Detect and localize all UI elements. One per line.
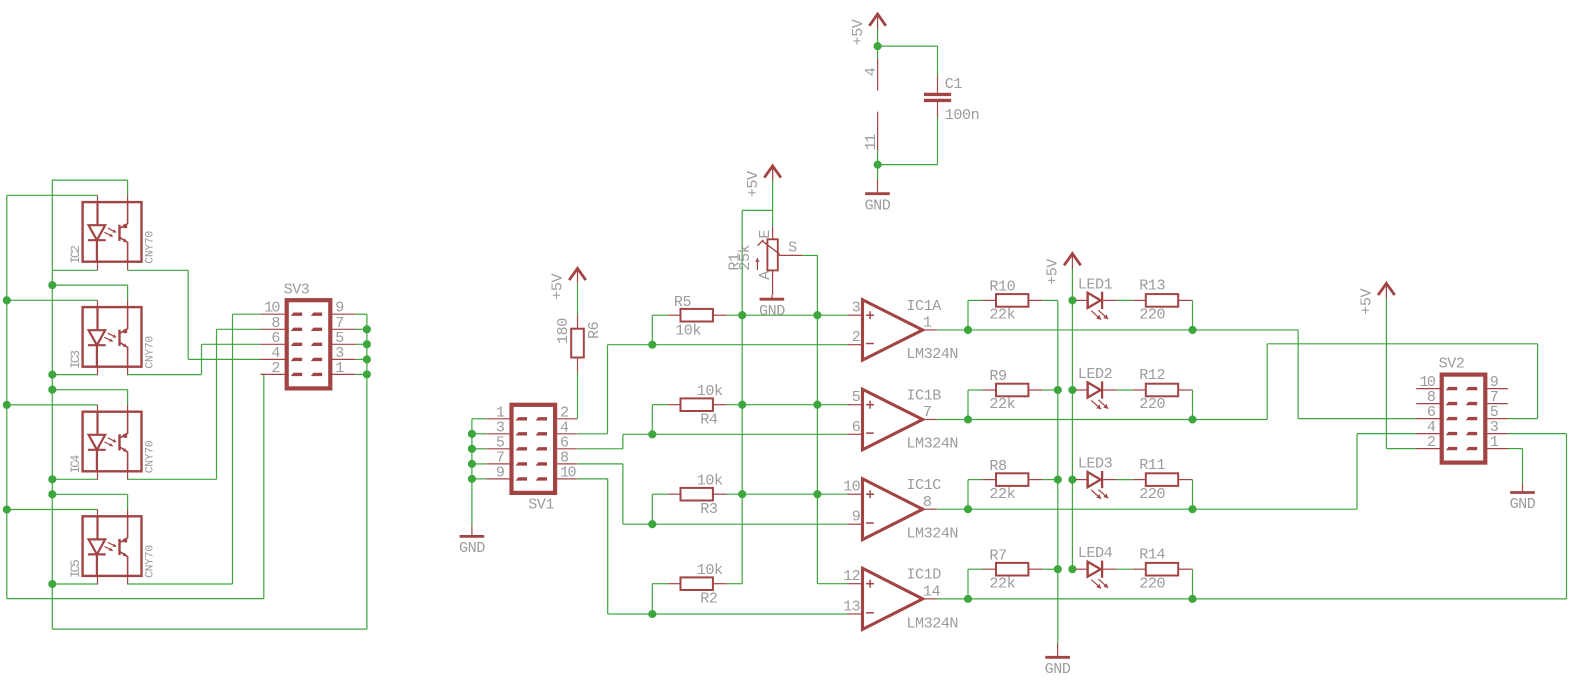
LED LED1 — [1086, 293, 1088, 308]
junction dot -row ch1 — [648, 341, 656, 349]
wire R14 down to output — [1191, 568, 1194, 570]
wire LED3 anode lead — [1072, 479, 1076, 481]
wire SV2 pin1 to gnd — [1508, 448, 1523, 450]
wire LED2 anode lead — [1072, 389, 1076, 391]
pin - IC1A — [848, 344, 863, 346]
svg-text:R7: R7 — [989, 546, 1006, 564]
wire emitter stub — [127, 367, 129, 376]
svg-text:+5V: +5V — [1044, 259, 1062, 285]
wire collector stub — [127, 300, 129, 307]
wire cathode return IC2 — [52, 269, 97, 271]
wire LED cathode to R14 — [1103, 568, 1117, 570]
svg-text:IC5: IC5 — [69, 560, 83, 578]
svg-text:LED4: LED4 — [1078, 544, 1113, 562]
junction dots rail A — [738, 311, 746, 319]
svg-text:LM324N: LM324N — [906, 345, 958, 363]
svg-text:LM324N: LM324N — [906, 435, 958, 453]
wire IC3 emitter to SV3 pin6 — [128, 374, 202, 376]
wire R5 left to -input — [652, 314, 668, 316]
op-amp IC1A LM324N — [863, 300, 923, 360]
wire output ch1 — [937, 329, 1192, 331]
svg-text:7: 7 — [923, 403, 932, 421]
wire net N$1 rail vertical — [6, 195, 8, 598]
pin 11 stub IC1 power — [877, 112, 879, 150]
svg-text:10: 10 — [843, 478, 861, 496]
svg-text:R2: R2 — [700, 590, 717, 608]
wire R12 down to output — [1191, 389, 1194, 391]
wire R7 left to output — [968, 568, 983, 570]
svg-text:GND: GND — [759, 302, 785, 320]
pin leads SV1 — [487, 418, 512, 420]
wire SV1 pin8 to IC1C -input — [577, 463, 623, 465]
wire anode feed IC4 — [7, 404, 98, 406]
LED LED4 — [1086, 562, 1088, 577]
resistor R4 10k — [668, 404, 681, 406]
junction dot ch1 output right — [1189, 326, 1197, 334]
svg-text:CNY70: CNY70 — [144, 545, 156, 578]
junction dot -row ch3 — [648, 520, 656, 528]
wire +5V to IC1 pin4 — [877, 29, 879, 59]
wire R6 to SV1 pin2 — [577, 372, 579, 419]
svg-text:GND: GND — [1510, 495, 1536, 513]
junction dot output ch1 — [964, 326, 972, 334]
svg-text:220: 220 — [1139, 485, 1165, 503]
svg-text:9: 9 — [852, 508, 861, 526]
svg-text:R14: R14 — [1139, 545, 1165, 563]
pin 4 stub IC1 power — [877, 59, 879, 91]
wire R8 left to output — [968, 479, 983, 481]
svg-text:2: 2 — [1427, 433, 1435, 451]
svg-text:220: 220 — [1139, 395, 1165, 413]
svg-text:R6: R6 — [585, 321, 603, 339]
ground GND below C1 — [877, 179, 879, 194]
ground GND below SV2 — [1522, 483, 1524, 492]
svg-text:4: 4 — [862, 67, 880, 76]
wire cathode stub — [97, 367, 99, 376]
svg-text:A: A — [756, 270, 774, 280]
connector SV3 — [287, 300, 331, 388]
resistor R13 220 — [1133, 299, 1147, 301]
resistor R3 10k — [668, 493, 681, 495]
svg-text:22k: 22k — [989, 574, 1015, 592]
svg-text:11: 11 — [862, 134, 880, 150]
pin out IC1C — [923, 508, 938, 510]
wire vcc to C1 — [878, 45, 938, 47]
svg-text:R3: R3 — [700, 500, 718, 518]
LED LED3 — [1086, 472, 1088, 487]
connector SV1 — [512, 405, 556, 493]
junction dot output ch2 — [964, 416, 972, 424]
wire collector stub — [127, 405, 129, 412]
wire collector stub — [127, 195, 129, 202]
wire R3 left to -input — [652, 493, 668, 495]
wire R2 left to -input — [652, 583, 668, 585]
svg-text:R10: R10 — [989, 278, 1015, 296]
svg-text:180: 180 — [554, 318, 572, 344]
wire +5V to R6 — [577, 283, 579, 314]
svg-text:R4: R4 — [700, 411, 718, 429]
wire C1 to gnd net — [937, 118, 939, 165]
wire R3 right to +input — [727, 493, 848, 495]
resistor R14 220 — [1133, 568, 1147, 570]
wire IC2 emitter to SV3 pin4 — [128, 269, 189, 271]
pin out IC1B — [923, 419, 938, 421]
svg-text:25k: 25k — [736, 244, 754, 270]
wire SV1 pin4 to IC1A -input — [577, 433, 607, 435]
junction dots rail B — [814, 311, 822, 319]
wire R2 right to +input — [727, 583, 742, 585]
wire anode stub — [97, 300, 99, 307]
power +5V above C1 — [869, 14, 886, 26]
svg-text:IC1D: IC1D — [906, 565, 941, 583]
pin - IC1C — [848, 523, 863, 525]
wire cathode return IC5 — [52, 583, 97, 585]
wire collector feed IC5 — [52, 493, 127, 495]
svg-text:R12: R12 — [1139, 366, 1165, 384]
junction dots on rail N$2 — [48, 281, 56, 289]
wire 22k gnd rail — [1057, 300, 1059, 643]
power +5V above SV2 — [1378, 283, 1395, 295]
wire +5V to R1 E — [772, 168, 774, 181]
wire R8 right to rail — [1042, 479, 1057, 481]
wire collector feed IC2 — [52, 179, 127, 181]
wire output ch3 — [937, 508, 1192, 510]
wire LED1 anode lead — [1072, 299, 1076, 301]
svg-text:CNY70: CNY70 — [144, 440, 156, 473]
wire ch3 output to SV2 pin4 — [1193, 508, 1358, 510]
wire R13 down to output — [1191, 299, 1194, 301]
pin - IC1B — [848, 433, 863, 435]
svg-text:100n: 100n — [945, 106, 979, 124]
junction dot output ch3 — [964, 505, 972, 513]
svg-text:1: 1 — [923, 314, 932, 332]
junction dot vcc — [874, 42, 882, 50]
pin + IC1D — [848, 583, 863, 585]
wire LED cathode to R11 — [1103, 479, 1117, 481]
svg-text:S: S — [788, 238, 797, 256]
svg-text:R5: R5 — [674, 293, 692, 311]
svg-text:E: E — [756, 230, 774, 239]
pin + IC1B — [848, 404, 863, 406]
junction dot -row ch4 — [648, 610, 656, 618]
resistor R9 22k — [983, 389, 997, 391]
op-amp IC1C LM324N — [863, 479, 923, 540]
svg-text:R13: R13 — [1139, 277, 1165, 295]
svg-text:220: 220 — [1139, 574, 1165, 592]
svg-text:6: 6 — [852, 418, 861, 436]
wire collector feed IC3 — [52, 284, 127, 286]
wire R5 right to +input — [727, 314, 848, 316]
wire anode stub — [97, 405, 99, 412]
wire IC4 emitter to SV3 pin8 — [128, 478, 217, 480]
junction dot ch3 output right — [1189, 505, 1197, 513]
wire +5V branch rail A — [742, 209, 772, 211]
junction dots SV1 rail — [468, 430, 476, 438]
wire rail N$1 bottom to SV3 pin2 — [7, 598, 264, 600]
svg-text:2: 2 — [271, 359, 279, 377]
svg-text:GND: GND — [459, 539, 485, 557]
pin out IC1A — [923, 329, 938, 331]
LED LED2 — [1086, 382, 1088, 397]
resistor R11 220 — [1133, 479, 1147, 481]
svg-text:22k: 22k — [989, 306, 1015, 324]
wire ch2 output to SV2 pin5 — [1193, 419, 1268, 421]
svg-text:IC1C: IC1C — [906, 476, 941, 494]
wire SV1 pin10 to IC1D -input — [577, 478, 607, 480]
resistor R10 22k — [983, 299, 997, 301]
svg-text:8: 8 — [923, 493, 932, 511]
wire R9 right to rail — [1042, 389, 1057, 391]
pin + IC1C — [848, 493, 863, 495]
ground GND below 22k rail — [1057, 643, 1059, 657]
wire SV1 pin6 to IC1B -input — [577, 448, 623, 450]
junction dots on rail N$1 — [3, 296, 11, 304]
wire rail N$2 bottom to SV3 right rail — [52, 628, 367, 630]
wire cathode return IC4 — [52, 478, 97, 480]
wire wiper rail B — [816, 255, 818, 583]
svg-text:GND: GND — [1045, 660, 1071, 678]
svg-text:IC2: IC2 — [69, 246, 83, 264]
svg-text:10k: 10k — [675, 321, 701, 339]
resistor R12 220 — [1133, 389, 1147, 391]
capacitor C1 100n — [937, 76, 939, 93]
svg-text:10: 10 — [560, 463, 576, 481]
svg-text:SV2: SV2 — [1439, 355, 1465, 373]
svg-text:R9: R9 — [989, 367, 1007, 385]
wire R1 wiper to rail B — [802, 254, 817, 256]
op-amp IC1B LM324N — [863, 389, 923, 449]
svg-text:IC1B: IC1B — [906, 386, 941, 404]
wire net N$2 rail vertical — [51, 180, 53, 629]
pin + IC1A — [848, 314, 863, 316]
wire SV3 right rail stubs — [355, 313, 367, 315]
wire cathode return IC3 — [52, 374, 97, 376]
wire anode feed IC3 — [7, 299, 98, 301]
ground GND below SV1 — [471, 525, 473, 536]
svg-text:+5V: +5V — [1358, 288, 1376, 314]
connector SV2 — [1442, 375, 1486, 463]
wire anode feed IC2 — [7, 194, 98, 196]
junction dot -row ch2 — [648, 430, 656, 438]
svg-text:GND: GND — [865, 196, 891, 214]
wire LED cathode to R13 — [1103, 299, 1117, 301]
junction dot gnd — [874, 161, 882, 169]
svg-text:C1: C1 — [945, 75, 963, 93]
svg-text:CNY70: CNY70 — [144, 336, 156, 369]
svg-text:SV1: SV1 — [528, 495, 554, 513]
svg-text:10k: 10k — [697, 382, 723, 400]
svg-text:13: 13 — [843, 598, 861, 616]
resistor R5 10k — [668, 314, 681, 316]
pin leads SV2 — [1416, 388, 1441, 390]
junction dot output ch4 — [964, 595, 972, 603]
wire +5V LED rail — [1064, 254, 1081, 266]
resistor R7 22k — [983, 568, 997, 570]
wire IC5 emitter to SV3 pin10 — [128, 583, 233, 585]
wire emitter stub — [127, 471, 129, 480]
power +5V above R1 — [764, 166, 781, 178]
svg-text:22k: 22k — [989, 395, 1015, 413]
svg-text:IC3: IC3 — [69, 351, 83, 369]
wire cathode stub — [97, 471, 99, 480]
wire collector stub — [127, 510, 129, 517]
svg-text:LM324N: LM324N — [906, 525, 958, 543]
wire emitter stub — [127, 576, 129, 585]
wire R9 left to output — [968, 389, 983, 391]
pin leads SV3 — [261, 313, 287, 315]
svg-text:5: 5 — [852, 388, 861, 406]
wire R11 down to output — [1191, 479, 1194, 481]
junction dots LED rail — [1069, 297, 1077, 305]
svg-text:220: 220 — [1139, 306, 1165, 324]
wire ch4 output to SV2 pin3 — [1193, 598, 1567, 600]
wire pin11 to gnd — [877, 150, 879, 179]
wire emitter stub — [127, 262, 129, 271]
svg-text:+5V: +5V — [849, 19, 867, 45]
wire +5V to SV2 pin2 — [1385, 298, 1387, 448]
pin - IC1D — [848, 613, 863, 615]
wire R4 right to +input — [727, 404, 848, 406]
wire cathode stub — [97, 262, 99, 271]
svg-text:R11: R11 — [1139, 456, 1165, 474]
wire anode feed IC5 — [7, 509, 98, 511]
wire SV1 left ground rail — [471, 419, 473, 526]
svg-text:IC4: IC4 — [69, 455, 83, 473]
svg-text:LED1: LED1 — [1078, 275, 1113, 293]
wire R4 left to -input — [652, 404, 668, 406]
wire LED4 anode lead — [1072, 568, 1076, 570]
svg-text:CNY70: CNY70 — [144, 231, 156, 264]
wire R10 left to output — [968, 299, 983, 301]
wire anode stub — [97, 195, 99, 202]
svg-text:IC1A: IC1A — [906, 297, 942, 315]
svg-text:22k: 22k — [989, 485, 1015, 503]
svg-text:LM324N: LM324N — [906, 614, 958, 632]
svg-text:R8: R8 — [989, 457, 1007, 475]
svg-text:LED3: LED3 — [1078, 455, 1113, 473]
junction dot ch4 output right — [1189, 595, 1197, 603]
wire collector feed IC4 — [52, 389, 127, 391]
svg-text:12: 12 — [843, 567, 860, 585]
wire R10 right to rail — [1042, 299, 1057, 301]
wire output ch2 — [937, 419, 1192, 421]
svg-text:SV3: SV3 — [284, 281, 310, 299]
wire ch1 output to SV2 pin6 — [1193, 329, 1299, 331]
resistor R2 10k — [668, 583, 681, 585]
junction dots on SV3 right rail — [363, 325, 371, 333]
resistor R8 22k — [983, 479, 997, 481]
svg-text:+5V: +5V — [744, 171, 762, 197]
svg-text:3: 3 — [852, 299, 861, 317]
resistor R6 180 — [577, 315, 579, 329]
junction dots 22k rail — [1054, 386, 1062, 394]
trimmer R1 25k — [772, 226, 774, 239]
wire LED cathode to R12 — [1103, 389, 1117, 391]
svg-text:LED2: LED2 — [1078, 365, 1112, 383]
pin out IC1D — [923, 598, 938, 600]
wire R7 right to rail — [1042, 568, 1057, 570]
op-amp IC1D LM324N — [863, 568, 923, 629]
svg-text:+5V: +5V — [549, 273, 567, 299]
svg-text:10k: 10k — [697, 561, 723, 579]
power +5V above R6 — [569, 268, 586, 280]
svg-text:10k: 10k — [697, 472, 723, 490]
svg-text:14: 14 — [923, 583, 941, 601]
adjust arrow R1 — [756, 258, 758, 270]
wire anode stub — [97, 510, 99, 517]
wire output ch4 — [937, 598, 1192, 600]
wire cathode stub — [97, 576, 99, 585]
ground GND below R1 — [771, 295, 773, 299]
svg-text:2: 2 — [852, 328, 861, 346]
junction dot ch2 output right — [1189, 416, 1197, 424]
